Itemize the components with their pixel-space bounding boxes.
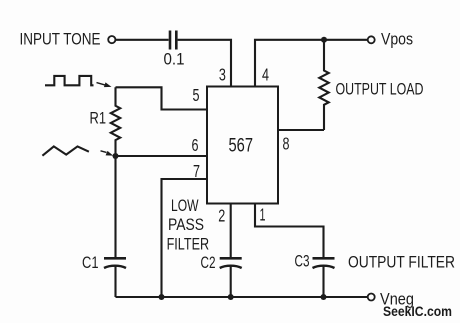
LOW PASS FILTER label bbox=[167, 197, 210, 254]
svg-text:1: 1 bbox=[260, 204, 266, 224]
wire junction to pin 6 bbox=[116, 155, 208, 157]
svg-text:6: 6 bbox=[192, 135, 199, 155]
wire pin 1 to C3 bbox=[255, 204, 324, 258]
svg-text:7: 7 bbox=[193, 161, 200, 181]
wire pin 7 to low pass filter bbox=[162, 179, 208, 297]
svg-text:R1: R1 bbox=[90, 110, 107, 128]
wire C2 to rail bbox=[230, 267, 232, 298]
junction low pass filter / rail bbox=[159, 294, 165, 300]
svg-text:OUTPUT FILTER: OUTPUT FILTER bbox=[348, 253, 455, 271]
svg-text:3: 3 bbox=[219, 65, 226, 85]
wire output load to pin 8 bbox=[278, 129, 324, 131]
svg-text:C3: C3 bbox=[295, 252, 310, 270]
junction C3 / rail bbox=[321, 294, 327, 300]
Vneg terminal bbox=[368, 294, 375, 301]
wire C3 to rail bbox=[322, 267, 324, 298]
wire C1 to bottom rail bbox=[114, 267, 116, 298]
capacitor 0.1 bbox=[170, 31, 176, 50]
resistor OUTPUT LOAD bbox=[319, 40, 328, 130]
capacitor C3 bbox=[313, 258, 335, 268]
svg-text:5: 5 bbox=[193, 85, 200, 105]
svg-text:C2: C2 bbox=[201, 254, 216, 272]
svg-text:Vpos: Vpos bbox=[381, 31, 413, 49]
square wave pointer arrow bbox=[97, 82, 112, 87]
triangle wave pointer arrow bbox=[101, 151, 114, 156]
op-amp U1 567 IC body bbox=[207, 87, 278, 204]
svg-text:INPUT TONE: INPUT TONE bbox=[20, 31, 101, 49]
wire pin 2 down to C2 bbox=[230, 204, 232, 258]
wire capacitor 0.1 to pin 3 bbox=[178, 40, 231, 87]
capacitor C1 bbox=[104, 258, 126, 268]
resistor R1 bbox=[111, 87, 120, 156]
svg-text:FILTER: FILTER bbox=[167, 236, 210, 254]
junction Vpos / output load bbox=[321, 37, 327, 43]
wire pin 4 to Vpos rail bbox=[255, 40, 368, 87]
svg-text:2: 2 bbox=[218, 205, 225, 225]
svg-text:SeekIC.com: SeekIC.com bbox=[383, 304, 452, 319]
junction node R1 / pin 6 / C1 bbox=[113, 153, 119, 159]
triangle wave symbol bbox=[42, 146, 89, 155]
svg-text:567: 567 bbox=[229, 136, 254, 157]
svg-text:C1: C1 bbox=[82, 254, 99, 272]
junction C2 / rail bbox=[228, 294, 234, 300]
Vpos terminal bbox=[368, 36, 375, 43]
svg-text:PASS: PASS bbox=[168, 216, 204, 234]
input terminal bbox=[108, 36, 115, 43]
svg-text:OUTPUT LOAD: OUTPUT LOAD bbox=[336, 80, 424, 98]
wire square-wave corner to pin 5 bbox=[116, 87, 208, 109]
wire input terminal to capacitor 0.1 bbox=[116, 39, 169, 41]
wire junction down to C1 bbox=[114, 156, 116, 257]
svg-text:4: 4 bbox=[262, 65, 269, 85]
bottom rail wire bbox=[116, 296, 368, 298]
svg-text:8: 8 bbox=[283, 134, 290, 154]
square wave symbol bbox=[45, 76, 94, 85]
capacitor C2 bbox=[220, 258, 242, 268]
svg-text:0.1: 0.1 bbox=[164, 50, 185, 68]
svg-text:LOW: LOW bbox=[171, 197, 199, 215]
